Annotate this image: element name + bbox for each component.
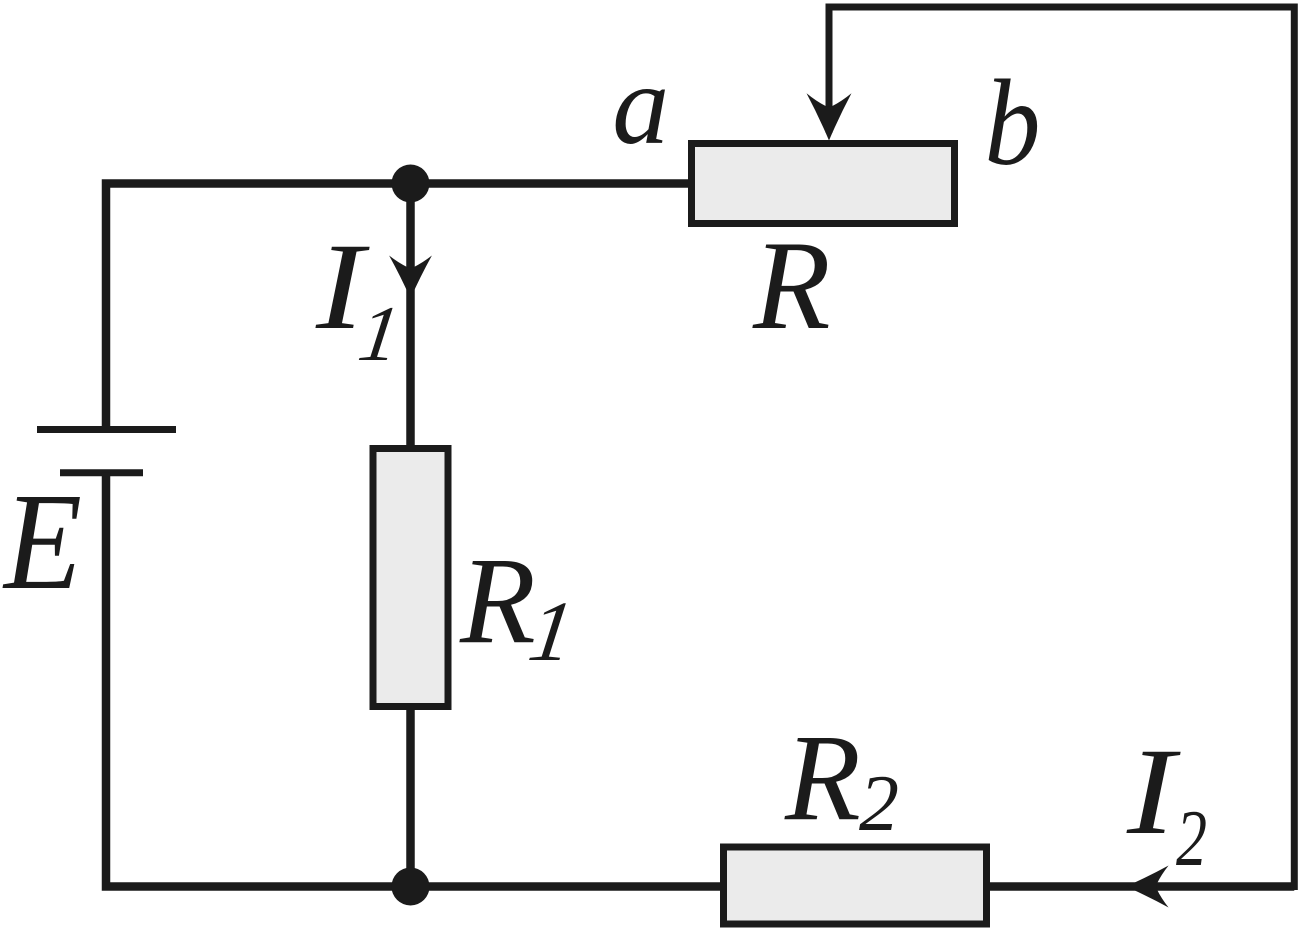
resistor R2 box bbox=[724, 847, 987, 924]
battery E bottom plate (short, negative) bbox=[60, 469, 143, 476]
wire: top-right loop from wiper stem across top and down right side bbox=[829, 7, 1294, 890]
wire: bottom right segment from R2 to right vertical riser bbox=[987, 882, 1294, 891]
svg-text:R: R bbox=[784, 709, 861, 846]
wire: top horizontal from battery corner to node a and to R box bbox=[106, 184, 688, 430]
arrowhead: current I2 leftward on bottom wire bbox=[1126, 866, 1169, 908]
svg-text:R: R bbox=[459, 532, 536, 669]
arrowhead: wiper arrow into top of R bbox=[807, 93, 852, 140]
battery E top plate (long, positive) bbox=[37, 426, 176, 433]
svg-text:I: I bbox=[1126, 723, 1182, 860]
svg-text:R: R bbox=[752, 216, 831, 356]
svg-text:E: E bbox=[2, 465, 82, 619]
arrowhead: current I1 downward on middle branch bbox=[389, 256, 432, 299]
wire: middle branch from node a down to R1 bbox=[406, 184, 415, 449]
node junction dot top bbox=[392, 165, 430, 203]
svg-text:a: a bbox=[612, 41, 669, 168]
svg-text:2: 2 bbox=[1176, 795, 1207, 883]
resistor R (rheostat) box bbox=[692, 144, 955, 224]
resistor R1 box bbox=[373, 449, 448, 707]
svg-text:2: 2 bbox=[859, 760, 899, 848]
svg-text:b: b bbox=[985, 54, 1041, 191]
node junction dot bottom bbox=[392, 868, 430, 906]
wire: battery negative down and bottom horizontal to R2 bbox=[106, 473, 723, 887]
wire: R1 bottom lead to bottom node bbox=[406, 707, 415, 887]
